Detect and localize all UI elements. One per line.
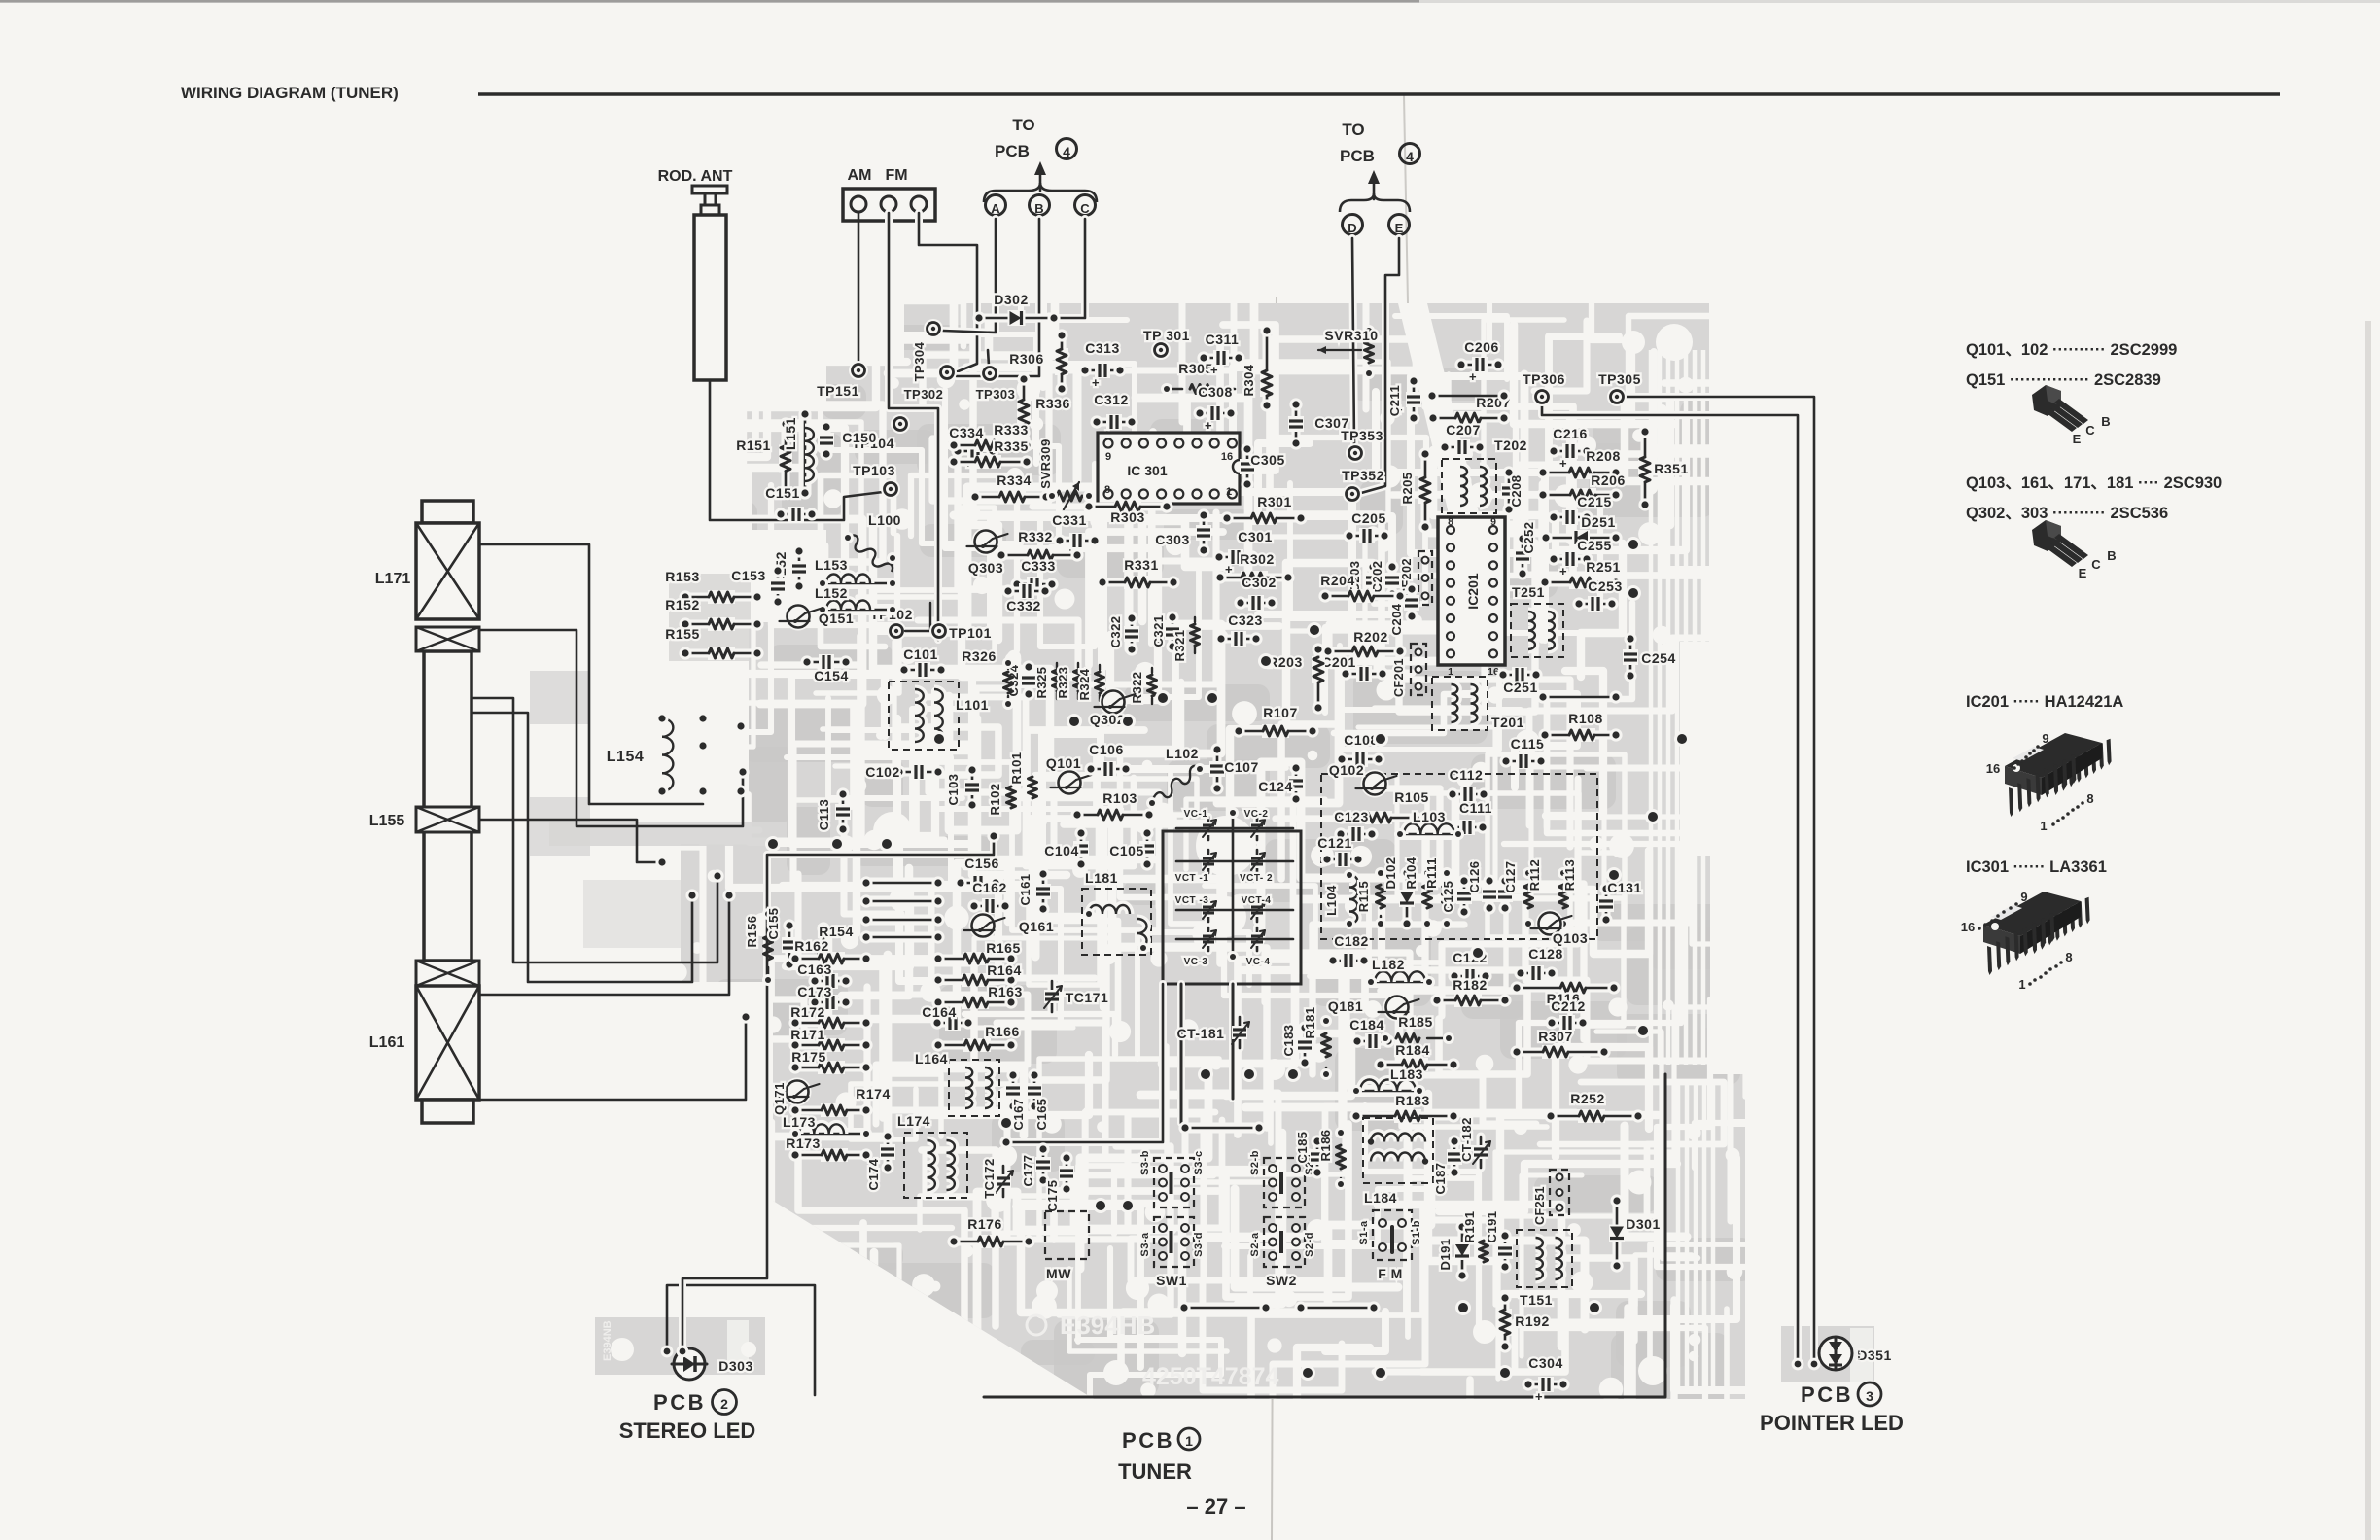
resistor R182 [1430, 977, 1511, 1007]
svg-text:R155: R155 [665, 626, 699, 642]
svg-text:8: 8 [2086, 791, 2093, 806]
capacitor C251 [1496, 667, 1542, 695]
svg-text:D191: D191 [1438, 1238, 1452, 1270]
svg-text:CT-181: CT-181 [1177, 1026, 1225, 1041]
svg-text:R174: R174 [856, 1086, 890, 1102]
svg-text:C128: C128 [1528, 946, 1562, 962]
svg-text:R171: R171 [790, 1027, 824, 1042]
svg-text:R333: R333 [994, 422, 1028, 437]
wire PCB2 lead 1 [667, 1285, 815, 1395]
svg-text:C177: C177 [1021, 1154, 1035, 1186]
resistor R166 [931, 1024, 1019, 1052]
svg-text:C252: C252 [1522, 521, 1536, 553]
svg-text:1: 1 [2018, 977, 2025, 992]
connector A [986, 195, 1006, 217]
svg-text:3: 3 [1866, 1388, 1873, 1404]
resistor R205 [1400, 447, 1432, 533]
transformer T251 [1511, 584, 1563, 657]
svg-text:VCT-4: VCT-4 [1242, 895, 1272, 906]
svg-text:C182: C182 [1334, 933, 1368, 949]
svg-text:TUNER: TUNER [1118, 1459, 1192, 1484]
svg-text:C106: C106 [1089, 742, 1123, 757]
capacitor C308 [1193, 384, 1237, 433]
jumper bottom 1 [1177, 1301, 1272, 1313]
variable cap VC-4 [1246, 927, 1271, 967]
svg-text:D: D [1347, 221, 1356, 235]
svg-text:Q302: Q302 [1090, 712, 1125, 727]
silk E394HB [1027, 1311, 1155, 1340]
wire L161 top to board [479, 889, 736, 995]
transformer L174 [897, 1113, 967, 1198]
svg-text:L104: L104 [1324, 885, 1339, 916]
svg-text:D301: D301 [1626, 1216, 1660, 1232]
svg-text:TP 301: TP 301 [1143, 328, 1190, 343]
capacitor C253 [1572, 578, 1622, 612]
svg-text:ROD. ANT: ROD. ANT [658, 168, 733, 185]
jumper row 4 [859, 930, 944, 943]
connector C [1075, 195, 1096, 217]
svg-text:+: + [1205, 418, 1212, 433]
resistor R307 [1510, 1029, 1610, 1059]
svg-text:R156: R156 [745, 915, 759, 947]
svg-text:S3-a: S3-a [1139, 1232, 1151, 1257]
svg-text:C211: C211 [1387, 385, 1402, 416]
resistor R175 [788, 1049, 872, 1074]
svg-text:T151: T151 [1520, 1292, 1553, 1308]
wire A to TP304 [943, 219, 996, 332]
capacitor C164 [922, 1004, 974, 1031]
capacitor C202 [1370, 560, 1400, 600]
resistor R333 [947, 422, 1032, 452]
svg-text:S3-c: S3-c [1193, 1150, 1205, 1174]
svg-text:D102: D102 [1383, 857, 1398, 889]
svg-text:C255: C255 [1577, 538, 1611, 553]
svg-text:C: C [1080, 201, 1090, 216]
svg-text:VCT -3: VCT -3 [1175, 895, 1209, 906]
wire bar tap 2 [473, 713, 699, 982]
resistor R351 [1638, 425, 1688, 510]
svg-text:R304: R304 [1242, 364, 1256, 396]
svg-text:C107: C107 [1224, 759, 1258, 775]
svg-text:9: 9 [1490, 516, 1496, 528]
svg-text:R192: R192 [1515, 1313, 1549, 1329]
legend Q103 line [1966, 474, 2222, 492]
svg-text:VC-4: VC-4 [1246, 957, 1271, 967]
resistor R251 [1538, 559, 1622, 589]
svg-text:C165: C165 [1034, 1098, 1049, 1130]
capacitor C128 [1514, 946, 1562, 981]
svg-text:STEREO LED: STEREO LED [619, 1418, 756, 1443]
svg-text:E: E [1395, 221, 1404, 235]
label PCB 2 STEREO LED [619, 1390, 756, 1444]
coil L154 [607, 712, 674, 797]
transistor Q103 [1531, 910, 1589, 947]
capacitor C252 [1515, 521, 1536, 579]
svg-text:C183: C183 [1281, 1024, 1296, 1056]
svg-text:C164: C164 [922, 1004, 956, 1020]
transistor Q303 [967, 528, 1008, 577]
svg-text:TP305: TP305 [1598, 371, 1641, 387]
capacitor C131 [1598, 880, 1642, 927]
svg-text:C202: C202 [1370, 560, 1384, 592]
resistor R203 [1268, 643, 1324, 714]
capacitor C107 [1209, 743, 1259, 794]
ferrite coil L171 [375, 523, 479, 651]
capacitor C174 [866, 1130, 895, 1190]
diode D102 [1383, 857, 1415, 929]
page number [1186, 1494, 1245, 1519]
inductor L183 [1350, 1067, 1425, 1097]
svg-text:16: 16 [1961, 920, 1975, 934]
resistor R113 [1557, 859, 1577, 929]
svg-text:Q103、161、171、181 ···· 2SC930: Q103、161、171、181 ···· 2SC930 [1966, 474, 2222, 492]
svg-text:L155: L155 [369, 813, 405, 829]
svg-text:TP304: TP304 [912, 341, 927, 381]
svg-text:C215: C215 [1577, 494, 1611, 509]
svg-text:Q303: Q303 [968, 560, 1003, 576]
svg-text:C103: C103 [946, 773, 961, 805]
resistor R172 [788, 1004, 872, 1030]
svg-text:C: C [2091, 557, 2101, 572]
variable cap VC-3 [1184, 927, 1216, 967]
svg-text:R321: R321 [1172, 629, 1187, 661]
svg-text:C113: C113 [817, 799, 831, 830]
svg-text:TP303: TP303 [976, 387, 1016, 402]
capacitor C191 [1485, 1210, 1513, 1273]
svg-text:C308: C308 [1198, 384, 1232, 400]
diode D302 [972, 292, 1060, 326]
IC package LA3361 drawing [1961, 890, 2090, 992]
paper crease over PCB [1398, 303, 1507, 627]
capacitor C150 [819, 420, 877, 460]
svg-text:SVR309: SVR309 [1038, 438, 1053, 488]
svg-text:E: E [2079, 566, 2087, 580]
variable cap VCT-2 [1240, 850, 1273, 884]
capacitor C152 [773, 544, 807, 592]
svg-text:1: 1 [2040, 819, 2047, 833]
jumper row 1 [859, 876, 944, 889]
transformer T202 [1442, 437, 1527, 513]
svg-text:T202: T202 [1494, 437, 1527, 453]
svg-text:C115: C115 [1511, 736, 1545, 752]
resistor R163 [931, 984, 1022, 1009]
resistor R162 [788, 938, 872, 965]
coil L164 [915, 1051, 999, 1116]
svg-text:S2-a: S2-a [1249, 1232, 1261, 1257]
svg-text:C201: C201 [1321, 654, 1355, 670]
svg-text:TP302: TP302 [904, 387, 944, 402]
capacitor C156 [954, 856, 1001, 891]
capacitor C255 [1547, 538, 1611, 578]
svg-text:R151: R151 [736, 437, 770, 453]
svg-text:L100: L100 [868, 512, 901, 528]
jumper row 3 [859, 913, 944, 926]
svg-text:+: + [1559, 564, 1567, 578]
svg-text:TC171: TC171 [1066, 990, 1109, 1005]
ferrite bar middle [424, 651, 472, 961]
filter CF202 [1400, 551, 1432, 605]
resistor R204 [1318, 573, 1406, 603]
svg-text:C161: C161 [1018, 873, 1032, 905]
svg-text:SW1: SW1 [1156, 1273, 1187, 1288]
svg-text:R107: R107 [1263, 705, 1297, 720]
resistor R173 [786, 1136, 872, 1162]
svg-text:PCB: PCB [1801, 1382, 1853, 1407]
svg-text:4: 4 [1406, 149, 1414, 164]
svg-text:D303: D303 [718, 1358, 752, 1374]
ferrite bar top cap [422, 501, 473, 523]
svg-text:C208: C208 [1509, 474, 1523, 507]
resistor R155 [665, 626, 763, 660]
resistor R153 [665, 569, 763, 604]
trimmer TC172 [982, 1158, 1013, 1199]
svg-text:R351: R351 [1654, 461, 1688, 476]
wire rod antenna to TP103 [710, 380, 883, 520]
svg-text:C124: C124 [1258, 779, 1292, 794]
diode D251 [1539, 514, 1622, 545]
coil L102 [1146, 746, 1206, 809]
capacitor C204 [1389, 582, 1419, 635]
capacitor C211 [1387, 374, 1421, 424]
svg-text:R335: R335 [994, 438, 1028, 454]
svg-text:R162: R162 [794, 938, 828, 954]
resistor R164 [931, 962, 1021, 987]
svg-text:Q181: Q181 [1328, 998, 1363, 1014]
resistor R181 [1303, 1006, 1332, 1080]
svg-text:R113: R113 [1562, 859, 1577, 891]
capacitor C125 [1441, 874, 1472, 918]
wire D to TP353 [1352, 238, 1354, 444]
variable cap VCT-3 [1175, 895, 1216, 922]
svg-text:E394HB: E394HB [1060, 1311, 1155, 1340]
svg-text:L152: L152 [815, 585, 848, 601]
svg-text:L171: L171 [375, 571, 411, 587]
resistor R202 [1321, 629, 1406, 658]
resistor R301 [1220, 494, 1307, 525]
transistor Q102 [1329, 762, 1397, 798]
transformer L184 [1363, 1118, 1433, 1206]
svg-text:VC-3: VC-3 [1184, 957, 1208, 967]
pot SVR309 [1038, 438, 1095, 509]
wire L171 top to board [479, 544, 710, 804]
svg-text:R173: R173 [786, 1136, 820, 1151]
svg-text:R332: R332 [1018, 529, 1052, 544]
svg-text:C155: C155 [766, 907, 781, 939]
svg-text:S3-d: S3-d [1193, 1232, 1205, 1257]
capacitor C127 [1497, 860, 1518, 914]
svg-text:C105: C105 [1109, 843, 1143, 858]
IC package HA12421A drawing [1986, 731, 2112, 833]
resistor R184 [1374, 1042, 1459, 1071]
test point TP306 [1522, 371, 1565, 406]
svg-text:R251: R251 [1586, 559, 1620, 575]
svg-text:R105: R105 [1394, 789, 1428, 805]
capacitor C321 [1151, 611, 1180, 652]
resistor R325 [1034, 663, 1062, 699]
svg-text:Q302、303 ·········· 2SC536: Q302、303 ·········· 2SC536 [1966, 505, 2168, 522]
capacitor C111 [1445, 800, 1492, 835]
trimmer CT-181 [1177, 1017, 1249, 1048]
scan artifact fold crease [1272, 95, 1489, 1540]
svg-text:TP151: TP151 [817, 383, 859, 399]
coil L100 [842, 512, 901, 572]
svg-text:1: 1 [1185, 1433, 1193, 1449]
svg-text:L174: L174 [897, 1113, 930, 1129]
legend IC201 line [1966, 693, 2123, 711]
resistor R151 [736, 417, 791, 499]
resistor R192 [1498, 1291, 1549, 1352]
capacitor C303 [1155, 508, 1211, 556]
resistor R207 [1425, 389, 1510, 424]
capacitor C185 [1295, 1131, 1325, 1178]
resistor R336 [1017, 372, 1069, 438]
svg-text:C173: C173 [797, 984, 831, 999]
svg-text:S2-d: S2-d [1304, 1232, 1315, 1257]
svg-text:R102: R102 [988, 783, 1002, 815]
test point TP151 [817, 361, 868, 399]
svg-text:C304: C304 [1528, 1355, 1562, 1371]
capacitor C332 [1001, 583, 1051, 613]
inductor L153 [815, 557, 898, 589]
capacitor C254 [1623, 632, 1676, 682]
svg-text:C184: C184 [1349, 1017, 1383, 1032]
PCB3 copper patch [1781, 1326, 1874, 1382]
legend Q302 line [1966, 505, 2168, 522]
svg-text:8: 8 [1104, 484, 1110, 496]
trimmer CT-182 [1459, 1117, 1490, 1168]
pot SVR310 [1318, 325, 1379, 379]
svg-text:L161: L161 [369, 1034, 405, 1051]
svg-text:L173: L173 [783, 1114, 816, 1130]
resistor R322 [1130, 668, 1157, 704]
svg-text:Q103: Q103 [1553, 930, 1588, 946]
capacitor C124 [1258, 761, 1304, 805]
svg-text:Q101、102 ·········· 2SC2999: Q101、102 ·········· 2SC2999 [1966, 341, 2177, 359]
svg-text:R184: R184 [1395, 1042, 1429, 1058]
svg-text:C111: C111 [1459, 800, 1492, 816]
svg-text:PCB: PCB [995, 142, 1030, 160]
wire ANT to TP302 [919, 213, 977, 372]
transformer T201 [1432, 677, 1623, 730]
svg-text:C322: C322 [1108, 615, 1123, 647]
transistor Q151 [780, 603, 855, 631]
PCB1 copper area [681, 303, 1745, 1399]
resistor R303 [1082, 500, 1172, 525]
resistor R332 [995, 529, 1083, 562]
switch SW2 lower [1249, 1217, 1315, 1288]
resistor R101 [1009, 752, 1037, 798]
svg-text:Q151 ··············· 2SC2839: Q151 ··············· 2SC2839 [1966, 371, 2161, 389]
svg-text:T251: T251 [1512, 584, 1545, 600]
svg-text:PCB: PCB [653, 1390, 706, 1415]
wire L155 to board [479, 820, 669, 869]
capacitor C187 [1433, 1135, 1462, 1194]
diode D301 [1609, 1194, 1661, 1272]
capacitor C126 [1467, 860, 1497, 914]
resistor R152 [665, 597, 763, 631]
junction dots [765, 537, 1690, 1381]
filter CF201 [1392, 644, 1426, 697]
wire L171 bottom to board [479, 630, 750, 826]
svg-text:SVR310: SVR310 [1324, 328, 1378, 343]
svg-text:C175: C175 [1045, 1179, 1060, 1211]
test point TP353 [1341, 428, 1383, 463]
resistor R171 [788, 1027, 872, 1052]
copper patch L151 area [669, 574, 751, 661]
svg-text:WIRING DIAGRAM (TUNER): WIRING DIAGRAM (TUNER) [181, 84, 399, 102]
capacitor C165 [1027, 1068, 1049, 1130]
svg-text:R115: R115 [1356, 881, 1371, 912]
svg-text:R185: R185 [1398, 1014, 1432, 1030]
svg-text:16: 16 [1986, 761, 2000, 776]
transistor Q171 [772, 1078, 820, 1115]
capacitor C323 [1214, 612, 1262, 647]
svg-text:R303: R303 [1110, 509, 1144, 525]
svg-text:C312: C312 [1094, 392, 1128, 407]
wire FM to TP101 [889, 213, 938, 640]
transistor package 2SC930 drawing [2032, 520, 2117, 580]
variable cap VCT-1 [1175, 850, 1216, 884]
svg-text:TP101: TP101 [949, 625, 992, 641]
svg-text:C253: C253 [1588, 578, 1622, 594]
transistor Q101 [1046, 755, 1092, 797]
resistor R105 [1335, 789, 1428, 824]
capacitor C106 [1084, 742, 1132, 777]
jumper top mid [1178, 1121, 1265, 1134]
filter CF251 [1533, 1170, 1569, 1225]
svg-text:S3-b: S3-b [1139, 1150, 1151, 1175]
svg-text:+: + [1210, 363, 1218, 377]
svg-text:R302: R302 [1240, 551, 1274, 567]
capacitor C322 [1108, 612, 1139, 655]
svg-text:C302: C302 [1242, 575, 1276, 590]
test point TP352 [1342, 468, 1384, 504]
svg-text:L153: L153 [815, 557, 848, 573]
resistor R115 [1356, 867, 1386, 929]
svg-text:C313: C313 [1085, 340, 1119, 356]
resistor R335 [947, 438, 1032, 469]
test point TP303 [976, 364, 1016, 402]
svg-text:Q101: Q101 [1046, 755, 1081, 771]
capacitor C215 [1547, 494, 1611, 525]
svg-text:R191: R191 [1462, 1210, 1477, 1242]
svg-text:C311: C311 [1206, 332, 1240, 347]
svg-text:TP103: TP103 [853, 463, 895, 478]
wire E to TP352 [1361, 238, 1399, 493]
svg-text:S1-b: S1-b [1411, 1220, 1422, 1245]
legend IC301 line [1966, 858, 2107, 876]
connector E [1389, 215, 1410, 236]
legend Q101 line [1966, 341, 2177, 359]
inductor L182 [1365, 957, 1435, 988]
resistor R183 [1349, 1093, 1459, 1123]
svg-text:R108: R108 [1568, 711, 1602, 726]
wire TP305 to PCB3 [1627, 397, 1814, 1361]
svg-text:C205: C205 [1351, 510, 1385, 526]
svg-text:C303: C303 [1155, 532, 1189, 547]
svg-text:C212: C212 [1551, 998, 1585, 1014]
tuning gang frame [1163, 807, 1301, 984]
svg-text:T889: T889 [1852, 1348, 1864, 1373]
capacitor C201 [1321, 654, 1388, 682]
svg-text:A: A [991, 201, 1000, 216]
resistor R154 [817, 922, 853, 989]
svg-text:VC-1: VC-1 [1184, 809, 1208, 820]
svg-text:C331: C331 [1052, 512, 1086, 528]
svg-text:C323: C323 [1228, 612, 1262, 628]
transformer L101 [889, 682, 989, 750]
capacitor C203 [1347, 560, 1381, 600]
